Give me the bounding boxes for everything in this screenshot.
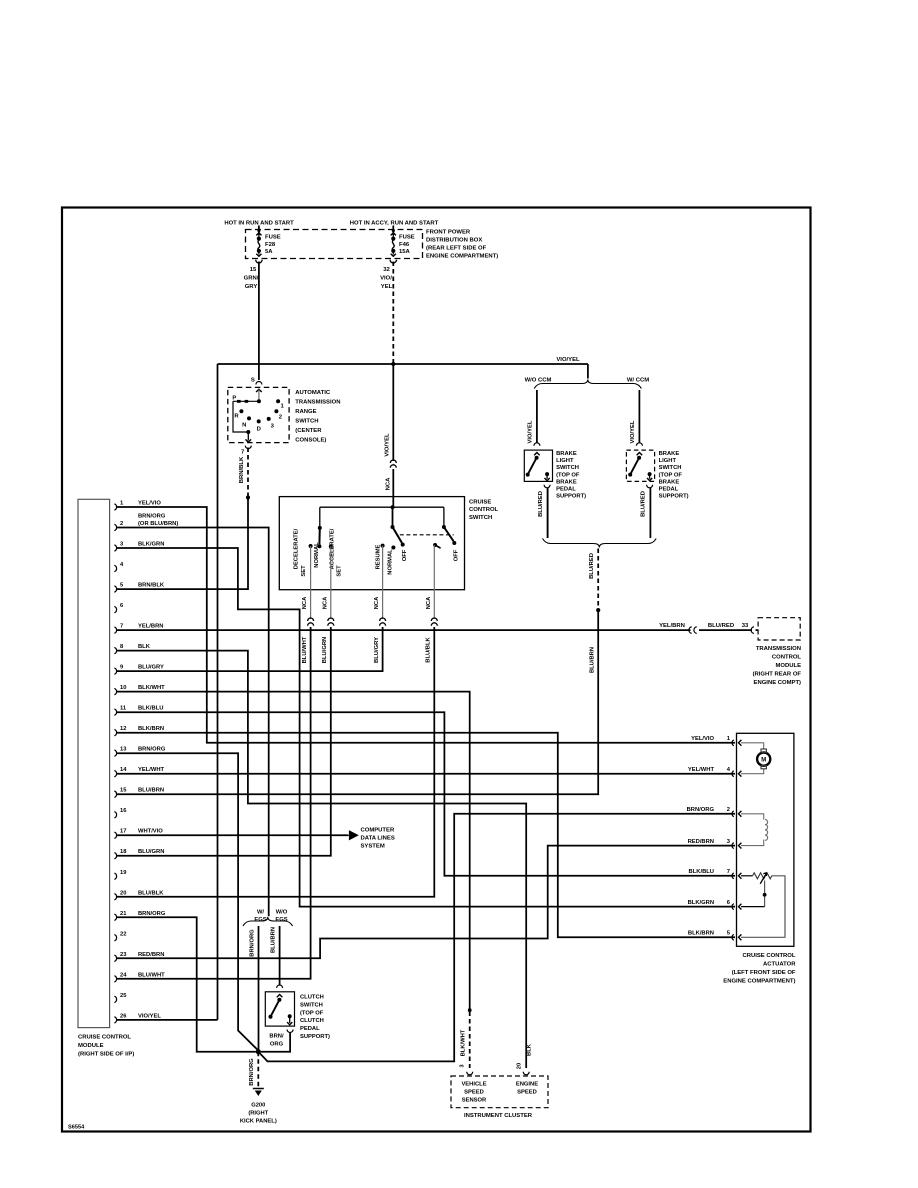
svg-text:NORMAL: NORMAL — [388, 549, 394, 575]
svg-text:W/: W/ — [257, 910, 264, 916]
svg-text:BLU/BLK: BLU/BLK — [138, 890, 164, 896]
svg-text:CRUISE CONTROL: CRUISE CONTROL — [78, 1035, 131, 1041]
svg-text:21: 21 — [120, 911, 127, 917]
pin 16 module connector — [114, 812, 116, 818]
svg-text:2: 2 — [120, 521, 123, 527]
connector brake right out — [647, 485, 653, 488]
fuse F28 5A — [257, 229, 260, 232]
wire pin8 BLK — [117, 651, 526, 1068]
svg-text:SWITCH: SWITCH — [295, 419, 318, 425]
svg-text:FUSE: FUSE — [399, 235, 415, 241]
svg-text:NCA: NCA — [302, 596, 308, 609]
wire brake left branch — [536, 390, 538, 443]
brace brake feed — [534, 380, 641, 389]
svg-text:(RIGHT: (RIGHT — [248, 1111, 268, 1117]
svg-text:NCA: NCA — [426, 596, 432, 609]
arrow computer data lines — [348, 831, 358, 839]
node 1 dot — [276, 399, 280, 403]
svg-text:BLK/BLU: BLK/BLU — [138, 706, 163, 712]
svg-text:YEL/WHT: YEL/WHT — [688, 767, 715, 773]
svg-text:RANGE: RANGE — [295, 409, 316, 415]
node BLK/WHT splice — [468, 1008, 472, 1012]
wire GRN/GRY solid — [258, 262, 260, 381]
svg-text:13: 13 — [120, 747, 127, 753]
svg-text:33: 33 — [742, 623, 749, 629]
brake right arrow — [637, 453, 643, 456]
wire BLK/WHT dashed — [469, 1012, 471, 1069]
brake left contact — [526, 473, 530, 477]
svg-text:ENGINE COMPT): ENGINE COMPT) — [754, 680, 801, 686]
svg-text:(CENTER: (CENTER — [295, 428, 322, 434]
svg-text:(RIGHT REAR OF: (RIGHT REAR OF — [753, 672, 802, 678]
svg-text:ENGINE COMPARTMENT): ENGINE COMPARTMENT) — [723, 979, 795, 985]
pin 15 module connector — [114, 791, 116, 797]
svg-text:W/O: W/O — [276, 910, 288, 916]
svg-text:CLUTCH: CLUTCH — [300, 1018, 324, 1024]
pin 4 module connector — [114, 565, 116, 571]
svg-text:BLU/GRY: BLU/GRY — [138, 665, 164, 671]
svg-text:BLU/RED: BLU/RED — [589, 553, 595, 579]
svg-text:YEL/VIO: YEL/VIO — [138, 501, 161, 507]
wire BLU/BRN down to pin15 — [117, 610, 598, 794]
wire VIO/YEL dashed from F46 — [392, 262, 394, 364]
svg-text:SUPPORT): SUPPORT) — [300, 1034, 330, 1040]
svg-text:7: 7 — [727, 869, 730, 875]
svg-text:22: 22 — [120, 931, 126, 937]
wire brake right branch — [638, 390, 640, 443]
svg-text:BRN/BLK: BRN/BLK — [239, 456, 245, 483]
connector clutch top — [277, 985, 283, 988]
pin 19 module connector — [114, 873, 116, 879]
svg-text:EGS: EGS — [254, 917, 266, 923]
svg-text:CLUTCH: CLUTCH — [300, 995, 324, 1001]
wire pin1 YEL/VIO — [117, 507, 735, 743]
svg-text:F46: F46 — [399, 242, 410, 248]
actuator pin 4 — [732, 771, 734, 777]
svg-text:SWITCH: SWITCH — [300, 1002, 323, 1008]
pin 13 module connector — [114, 750, 116, 756]
wire pin12 BLK/BRN — [117, 733, 735, 938]
svg-text:VIO/YEL: VIO/YEL — [630, 420, 636, 443]
brake left out arrow — [546, 474, 548, 479]
svg-text:(LEFT FRONT SIDE OF: (LEFT FRONT SIDE OF — [732, 970, 796, 976]
svg-text:25: 25 — [120, 993, 127, 999]
wire VIO/YEL left drop to pin26 — [217, 364, 219, 1020]
wire BLU/GRN to pin18 — [117, 627, 331, 856]
svg-text:16: 16 — [120, 808, 127, 814]
svg-text:(TOP OF: (TOP OF — [556, 472, 580, 478]
node switch feed — [391, 505, 395, 509]
svg-text:BRN/ORG: BRN/ORG — [250, 929, 256, 957]
svg-text:YEL: YEL — [381, 284, 393, 290]
svg-text:ENGINE COMPARTMENT): ENGINE COMPARTMENT) — [426, 254, 498, 260]
node accelerate contact — [329, 544, 333, 548]
svg-text:BLU/GRN: BLU/GRN — [138, 849, 164, 855]
actuator pin 6 — [732, 904, 734, 910]
svg-text:BRN/ORG: BRN/ORG — [138, 747, 166, 753]
svg-text:W/O CCM: W/O CCM — [525, 378, 552, 384]
clutch arm — [271, 1000, 280, 1017]
svg-text:BLK/WHT: BLK/WHT — [138, 685, 165, 691]
svg-text:SET: SET — [337, 565, 343, 577]
connector inline 1 — [308, 618, 314, 621]
switch arm pole1 off — [393, 527, 403, 543]
pin 11 module connector — [114, 709, 116, 715]
wire BRN/ORG egs — [258, 926, 260, 1051]
wire pin3 BLK/GRN — [117, 548, 735, 907]
brace EGS — [243, 917, 293, 926]
cruise control module box — [78, 499, 110, 1027]
svg-text:TRANSMISSION: TRANSMISSION — [756, 646, 801, 652]
solenoid coil — [765, 820, 768, 841]
svg-text:BLU/BRN: BLU/BRN — [590, 647, 596, 673]
svg-text:NORMAL: NORMAL — [314, 542, 320, 568]
node off2 contact — [452, 541, 456, 545]
wire BRN/BLK to pin5 — [117, 498, 248, 590]
clutch contact — [269, 1015, 273, 1019]
pin 17 module connector — [114, 832, 116, 838]
pin 9 module connector — [114, 668, 116, 674]
svg-text:BLU/RED: BLU/RED — [538, 491, 544, 517]
actuator pin 5 — [732, 934, 734, 940]
wire VIO/YEL right drop — [587, 364, 589, 379]
svg-text:R: R — [234, 413, 239, 419]
svg-text:CONTROL: CONTROL — [772, 655, 802, 661]
node normal contact — [317, 544, 321, 548]
svg-text:SWITCH: SWITCH — [556, 465, 579, 471]
svg-text:FRONT POWER: FRONT POWER — [426, 230, 471, 236]
svg-text:SUPPORT): SUPPORT) — [659, 494, 689, 500]
svg-text:VIO/YEL: VIO/YEL — [556, 357, 580, 363]
svg-text:BLU/BRN: BLU/BRN — [271, 927, 277, 953]
svg-text:DECELERATE/: DECELERATE/ — [294, 528, 300, 569]
svg-text:SWITCH: SWITCH — [469, 515, 492, 521]
connector inline pin7 — [689, 627, 692, 634]
svg-text:20: 20 — [120, 890, 126, 896]
svg-text:FUSE: FUSE — [265, 235, 281, 241]
svg-text:15: 15 — [120, 788, 127, 794]
brake left arrow — [534, 453, 540, 456]
svg-text:(REAR LEFT SIDE OF: (REAR LEFT SIDE OF — [426, 246, 487, 252]
svg-text:LIGHT: LIGHT — [659, 458, 677, 464]
wire BLU/RED left — [547, 488, 549, 538]
svg-text:ORG: ORG — [270, 1042, 284, 1048]
cruise control actuator box — [737, 733, 794, 946]
node BRN/BLK splice — [246, 495, 250, 499]
pin 22 module connector — [114, 935, 116, 941]
wire switch bus — [320, 506, 444, 508]
connector below F28 — [256, 260, 262, 263]
svg-text:12: 12 — [120, 726, 126, 732]
svg-text:BLU/RED: BLU/RED — [708, 623, 734, 629]
pin 20 module connector — [114, 894, 116, 900]
svg-text:BLU/GRN: BLU/GRN — [322, 637, 328, 663]
wire P contact line — [233, 400, 259, 402]
node left pivot — [318, 526, 322, 530]
wire pin17 WHT/VIO — [117, 834, 348, 836]
connector brake left out — [544, 485, 550, 488]
brake right pivot — [637, 456, 641, 460]
connector brake left — [534, 443, 540, 446]
potentiometer wiper — [760, 873, 767, 884]
wire junction to actuator return — [258, 814, 735, 1062]
clutch switch box — [265, 992, 294, 1026]
wire pin14 YEL/WHT — [117, 773, 735, 775]
svg-text:SWITCH: SWITCH — [659, 465, 682, 471]
svg-text:BLK: BLK — [138, 644, 151, 650]
brake left pivot — [535, 456, 539, 460]
svg-text:CRUISE: CRUISE — [469, 500, 491, 506]
connector cluster left — [467, 1072, 473, 1075]
wire fuse F28 feed — [258, 226, 260, 236]
wire off2 out — [433, 545, 435, 619]
pin 2 module connector — [114, 524, 116, 530]
svg-text:BLK/WHT: BLK/WHT — [461, 1029, 467, 1056]
node 3 dot — [267, 417, 271, 421]
brake right arm — [630, 458, 639, 475]
wire BLU/BRN egs — [279, 926, 281, 985]
actuator pin 7 — [732, 873, 734, 879]
pin 14 module connector — [114, 770, 116, 776]
switch stub pole2 — [435, 545, 441, 548]
svg-text:CRUISE CONTROL: CRUISE CONTROL — [742, 953, 795, 959]
clutch pivot — [277, 998, 281, 1002]
svg-text:BRN/ORG: BRN/ORG — [249, 1058, 255, 1086]
svg-text:BRAKE: BRAKE — [659, 479, 680, 485]
contact ticks P — [237, 400, 241, 403]
svg-text:VEHICLE: VEHICLE — [461, 1082, 486, 1088]
switch arm pole2 off — [444, 527, 454, 541]
connector inline 2 — [328, 618, 334, 621]
svg-text:BLK/BLU: BLK/BLU — [689, 869, 714, 875]
svg-text:MODULE: MODULE — [775, 663, 801, 669]
pin 23 module connector — [114, 955, 116, 961]
wire pole1 drop — [392, 507, 394, 527]
connector TCM pin — [751, 627, 754, 634]
svg-text:BRN/BLK: BRN/BLK — [138, 583, 165, 589]
pin 24 module connector — [114, 976, 116, 982]
svg-text:S: S — [251, 378, 255, 384]
instrument cluster box — [451, 1076, 548, 1108]
wire resume out — [382, 546, 384, 619]
svg-text:RED/BRN: RED/BRN — [138, 952, 164, 958]
brake right out arrow — [649, 474, 651, 479]
svg-text:F28: F28 — [265, 242, 276, 248]
potentiometer wiper tap — [741, 906, 765, 908]
actuator pin 3 — [732, 843, 734, 849]
svg-text:(TOP OF: (TOP OF — [300, 1010, 324, 1016]
pin 25 module connector — [114, 996, 116, 1002]
switch arm decel-normal — [318, 528, 320, 545]
svg-text:CONTROL: CONTROL — [469, 507, 499, 513]
actuator pin 2 — [732, 811, 734, 817]
node R dot — [239, 409, 243, 413]
pin 6 module connector — [114, 606, 116, 612]
svg-text:OFF: OFF — [402, 549, 408, 561]
pin 21 module connector — [114, 914, 116, 920]
svg-text:15: 15 — [250, 267, 257, 273]
svg-text:RESUME: RESUME — [375, 544, 381, 569]
svg-text:MODULE: MODULE — [78, 1043, 104, 1049]
clutch out dot — [288, 1014, 292, 1018]
svg-text:VIO/YEL: VIO/YEL — [384, 433, 390, 457]
front power distribution box — [246, 230, 423, 259]
node ground junction — [256, 1049, 261, 1054]
svg-text:24: 24 — [120, 972, 127, 978]
svg-text:GRN/: GRN/ — [244, 276, 259, 282]
linkage dashed — [400, 534, 454, 536]
ground G200 symbol — [253, 1088, 264, 1090]
wire BLU/WHT to pin24 — [117, 627, 311, 979]
wire TCM stub — [756, 629, 759, 631]
svg-text:YEL/BRN: YEL/BRN — [138, 624, 163, 630]
brake light switch left box — [524, 450, 552, 481]
pin 26 module connector — [114, 1017, 116, 1023]
wire pole2 drop — [443, 507, 445, 527]
brake left arm — [528, 458, 537, 475]
wire clutch return — [261, 1032, 290, 1052]
potentiometer resistor — [753, 873, 772, 879]
potentiometer wire left — [741, 875, 753, 877]
svg-text:G200: G200 — [251, 1103, 265, 1109]
svg-text:PEDAL: PEDAL — [659, 487, 679, 493]
svg-text:RED/BRN: RED/BRN — [688, 839, 714, 845]
wire pin23 RED/BRN — [117, 846, 735, 959]
svg-text:D: D — [257, 427, 261, 433]
svg-text:7: 7 — [120, 624, 123, 630]
wire fuse F46 feed — [392, 226, 394, 236]
wire left pole drop — [319, 507, 321, 528]
svg-text:BLK/BRN: BLK/BRN — [688, 931, 714, 937]
svg-text:VIO/: VIO/ — [380, 276, 392, 282]
motor M — [757, 753, 770, 766]
brake right out dot — [648, 472, 652, 476]
svg-text:NCA: NCA — [385, 477, 391, 491]
svg-text:DATA LINES: DATA LINES — [361, 836, 395, 842]
wire pin11 BLK/BLU — [117, 712, 735, 876]
svg-text:11: 11 — [120, 706, 127, 712]
svg-text:BLK/GRN: BLK/GRN — [688, 900, 714, 906]
clutch out arrow — [289, 1016, 291, 1023]
node resume contact — [381, 544, 385, 548]
node pole2 pivot — [442, 525, 446, 529]
pin 12 module connector — [114, 729, 116, 735]
svg-text:VIO/YEL: VIO/YEL — [138, 1013, 161, 1019]
svg-text:20: 20 — [517, 1063, 523, 1069]
brake right contact — [628, 473, 632, 477]
wire VIO/YEL below connector — [392, 469, 394, 497]
svg-text:32: 32 — [383, 267, 390, 273]
svg-text:BLU/BLK: BLU/BLK — [426, 636, 432, 662]
svg-text:BRAKE: BRAKE — [556, 479, 577, 485]
svg-text:INSTRUMENT CLUSTER: INSTRUMENT CLUSTER — [464, 1113, 533, 1119]
svg-text:BLU/WHT: BLU/WHT — [302, 636, 308, 663]
pin 10 module connector — [114, 688, 116, 694]
wire VIO/YEL into switch — [392, 497, 394, 508]
wire range switch stub — [258, 389, 260, 401]
svg-text:BRAKE: BRAKE — [556, 451, 577, 457]
svg-text:BLU/BRN: BLU/BRN — [138, 788, 164, 794]
fuse F46 15A — [392, 229, 395, 232]
svg-text:TRANSMISSION: TRANSMISSION — [295, 400, 340, 406]
node decelerate contact — [309, 544, 313, 548]
svg-text:BLU/WHT: BLU/WHT — [138, 972, 165, 978]
svg-text:PEDAL: PEDAL — [556, 487, 576, 493]
pin 5 module connector — [114, 586, 116, 592]
node 2 dot — [274, 409, 278, 413]
svg-text:SUPPORT): SUPPORT) — [556, 494, 586, 500]
svg-text:W/ CCM: W/ CCM — [627, 378, 649, 384]
solenoid coil wires — [741, 814, 764, 820]
connector clutch out — [287, 1030, 293, 1033]
wire pin13 BRN/ORG — [117, 753, 258, 1050]
pin 18 module connector — [114, 853, 116, 859]
svg-text:(TOP OF: (TOP OF — [659, 472, 683, 478]
svg-text:BLU/GRY: BLU/GRY — [374, 637, 380, 663]
wire BLU/RED dashed — [597, 549, 599, 609]
svg-text:SYSTEM: SYSTEM — [361, 844, 385, 850]
wire VIO/YEL horizontal — [218, 363, 588, 365]
wire decelerate out — [310, 546, 312, 619]
svg-text:SPEED: SPEED — [464, 1090, 484, 1096]
svg-text:2: 2 — [727, 807, 730, 813]
transmission control module box — [758, 618, 800, 640]
pin 7 module connector — [114, 627, 116, 633]
svg-text:BRN/: BRN/ — [269, 1034, 284, 1040]
svg-text:15A: 15A — [399, 249, 411, 255]
svg-text:18: 18 — [120, 849, 127, 855]
wire range left leg — [233, 401, 248, 432]
brake left out dot — [545, 472, 549, 476]
wire pin2 BRN/ORG — [117, 528, 269, 917]
node resume2 contact — [433, 543, 437, 547]
wire BLU/BLK to pin20 — [117, 627, 434, 897]
svg-text:ENGINE: ENGINE — [516, 1082, 538, 1088]
wire BLU/RED right — [649, 488, 651, 538]
node normal1 contact — [391, 546, 395, 550]
svg-text:EGS: EGS — [275, 917, 287, 923]
pin 8 module connector — [114, 647, 116, 653]
svg-text:10: 10 — [120, 685, 126, 691]
svg-text:YEL/BRN: YEL/BRN — [659, 623, 685, 629]
arrow out of range switch — [247, 432, 249, 441]
connector inline 3 — [380, 618, 386, 621]
svg-text:SET: SET — [301, 565, 307, 577]
svg-text:BRAKE: BRAKE — [659, 451, 680, 457]
svg-text:(OR BLU/BRN): (OR BLU/BRN) — [138, 521, 178, 527]
svg-text:NCA: NCA — [322, 596, 328, 609]
svg-text:BRN/ORG: BRN/ORG — [138, 513, 166, 519]
actuator pin 1 — [732, 740, 734, 746]
node junction VIO/YEL — [391, 362, 395, 366]
connector brake right — [636, 443, 642, 446]
node BLU splice — [596, 608, 600, 612]
svg-text:P: P — [232, 396, 236, 402]
node N dot — [247, 416, 251, 420]
svg-text:BRN/ORG: BRN/ORG — [138, 911, 166, 917]
svg-text:OFF: OFF — [454, 549, 460, 561]
pin 1 module connector — [114, 504, 116, 510]
svg-text:BLK/BRN: BLK/BRN — [138, 726, 164, 732]
svg-text:M: M — [761, 758, 766, 764]
svg-text:26: 26 — [120, 1013, 127, 1019]
connector below F46 — [390, 260, 396, 263]
wire BRN/BLK dashed — [247, 448, 249, 497]
wire accelerate out — [330, 546, 332, 619]
connector cluster right — [523, 1072, 529, 1075]
svg-text:S6554: S6554 — [68, 1125, 85, 1131]
svg-text:ACTUATOR: ACTUATOR — [763, 962, 796, 968]
